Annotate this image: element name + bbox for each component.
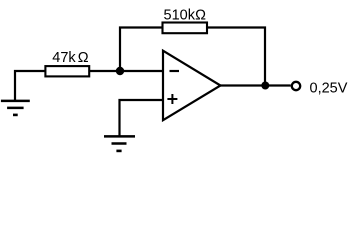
svg-text:510kΩ: 510kΩ bbox=[164, 7, 207, 23]
svg-text:0,25V: 0,25V bbox=[310, 80, 348, 96]
svg-text:47kΩ: 47kΩ bbox=[52, 50, 88, 66]
